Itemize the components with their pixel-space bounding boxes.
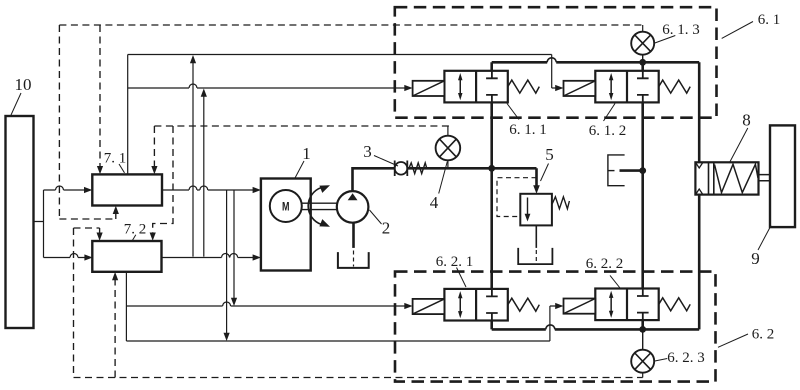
svg-text:6. 2. 3: 6. 2. 3 bbox=[667, 350, 705, 366]
wire B: 7.2 to motor unit 1 bbox=[162, 254, 261, 261]
svg-text:6. 1. 2: 6. 1. 2 bbox=[589, 123, 627, 139]
dashed drop to 7.1 top right bbox=[151, 126, 157, 174]
label 6.1.1 bbox=[507, 104, 547, 139]
shaft motor to pump bbox=[302, 203, 337, 209]
wire from panel 10 to controllers bbox=[33, 190, 44, 258]
svg-text:6. 1. 3: 6. 1. 3 bbox=[662, 22, 700, 38]
enclosure 6.2 dashed bbox=[395, 272, 716, 382]
brake cylinder 8 bbox=[695, 162, 770, 194]
pump 2 bbox=[337, 191, 369, 223]
label 3 bbox=[363, 142, 398, 166]
motor unit box 1 bbox=[261, 179, 311, 271]
label 6.2.3 bbox=[655, 350, 705, 366]
svg-text:1: 1 bbox=[302, 144, 311, 163]
controller box 7.1 bbox=[92, 174, 162, 205]
label 6.2.1 bbox=[436, 254, 474, 287]
solenoid valve 6.1.1 bbox=[413, 71, 540, 103]
wire 10 to 7.2 bbox=[44, 254, 93, 261]
dashed vertical down left side bbox=[73, 228, 75, 378]
svg-text:8: 8 bbox=[742, 111, 751, 130]
check valve 3 bbox=[395, 161, 427, 177]
svg-text:M: M bbox=[282, 202, 290, 214]
svg-text:3: 3 bbox=[363, 142, 372, 161]
return line from 6.2 valves to cylinder bbox=[492, 195, 700, 333]
pump suction line bbox=[352, 223, 355, 267]
label 7.2 bbox=[124, 222, 147, 241]
label 9 bbox=[751, 226, 771, 269]
wire V2 up to valve 6.1.1 line bbox=[201, 89, 207, 257]
label 4 bbox=[430, 162, 448, 213]
brake disc 9 bbox=[770, 125, 795, 227]
label 6.1.3 bbox=[655, 22, 700, 43]
svg-text:6. 2: 6. 2 bbox=[752, 327, 775, 343]
svg-text:9: 9 bbox=[751, 249, 760, 268]
svg-text:6. 1: 6. 1 bbox=[758, 12, 781, 28]
tank under relief valve bbox=[518, 248, 552, 264]
tank under pump bbox=[338, 252, 369, 268]
dashed feedback line from gauge 4 bbox=[154, 125, 449, 127]
svg-text:5: 5 bbox=[545, 145, 554, 164]
label 10 bbox=[11, 75, 32, 115]
control riser from 7.2 bottom bbox=[125, 272, 127, 341]
pressure line B bbox=[641, 102, 644, 288]
label 5 bbox=[541, 145, 554, 181]
label 6.2 bbox=[718, 327, 774, 348]
pump outlet line bbox=[353, 165, 540, 194]
svg-text:6. 1. 1: 6. 1. 1 bbox=[509, 122, 547, 138]
control wire to solenoid 6.1.1 bbox=[128, 84, 413, 91]
wire V1 up to valve 6.1.2 line bbox=[190, 55, 196, 257]
control wire to solenoid 6.1.2 bbox=[128, 55, 564, 92]
gauge 6.1.3 bbox=[631, 25, 654, 62]
wire V4 down to valve 6.2.1 line bbox=[231, 190, 237, 306]
controller box 7.2 bbox=[92, 241, 161, 272]
dashed drop from sensor line to 7.1 top left bbox=[97, 25, 103, 174]
svg-text:6. 2. 2: 6. 2. 2 bbox=[586, 256, 624, 272]
motor M circle bbox=[270, 190, 302, 222]
dashed branch to 7.2 top right bbox=[150, 126, 173, 241]
control riser from 7.1 top bbox=[127, 55, 129, 175]
label 7.1 bbox=[104, 151, 127, 173]
relief valve 5 bbox=[497, 178, 569, 226]
label 6.1 bbox=[722, 12, 781, 38]
solenoid valve 6.2.1 bbox=[413, 289, 540, 321]
wire 10 to 7.1 bbox=[44, 186, 93, 193]
dashed sensor line bottom bbox=[74, 377, 643, 379]
control wire to solenoid 6.2.1 bbox=[126, 302, 412, 309]
label 2 bbox=[370, 210, 391, 238]
pressure line A bbox=[490, 102, 493, 289]
wire A: 7.1 to motor unit 1 bbox=[162, 186, 261, 193]
control wire to solenoid 6.2.2 bbox=[126, 303, 563, 341]
label 8 bbox=[729, 111, 750, 164]
solenoid valve 6.1.2 bbox=[564, 71, 691, 103]
dashed line to 7.2 top left bbox=[74, 228, 103, 241]
supply line from 6.1 valves to cylinder bbox=[492, 58, 700, 163]
wire V3 down to valve 6.2.2 line bbox=[224, 190, 230, 341]
coupler port on line B bbox=[608, 155, 646, 186]
label 6.2.2 bbox=[586, 256, 624, 288]
panel 10 bbox=[6, 116, 34, 328]
dashed riser into 7.2 bottom bbox=[112, 272, 118, 378]
svg-text:10: 10 bbox=[15, 75, 32, 94]
gauge 4 bbox=[436, 126, 461, 168]
rotation arrow bbox=[308, 185, 330, 226]
dashed drop from sensor line to 7.1 bottom bbox=[59, 25, 119, 219]
dashed sensor line top bbox=[59, 24, 642, 26]
relief valve outlet bbox=[535, 225, 537, 262]
gauge 6.2.3 bbox=[631, 329, 654, 377]
svg-text:7. 1: 7. 1 bbox=[104, 151, 127, 167]
solenoid valve 6.2.2 bbox=[564, 289, 691, 321]
svg-text:6. 2. 1: 6. 2. 1 bbox=[436, 254, 474, 270]
port 6.2.2 bottom bbox=[641, 320, 644, 329]
svg-text:2: 2 bbox=[382, 219, 391, 238]
label 1 bbox=[295, 144, 311, 178]
enclosure 6.1 dashed bbox=[395, 7, 717, 118]
svg-text:4: 4 bbox=[430, 193, 439, 212]
label 6.1.2 bbox=[589, 104, 627, 140]
port 6.1.2 top bbox=[641, 62, 644, 71]
